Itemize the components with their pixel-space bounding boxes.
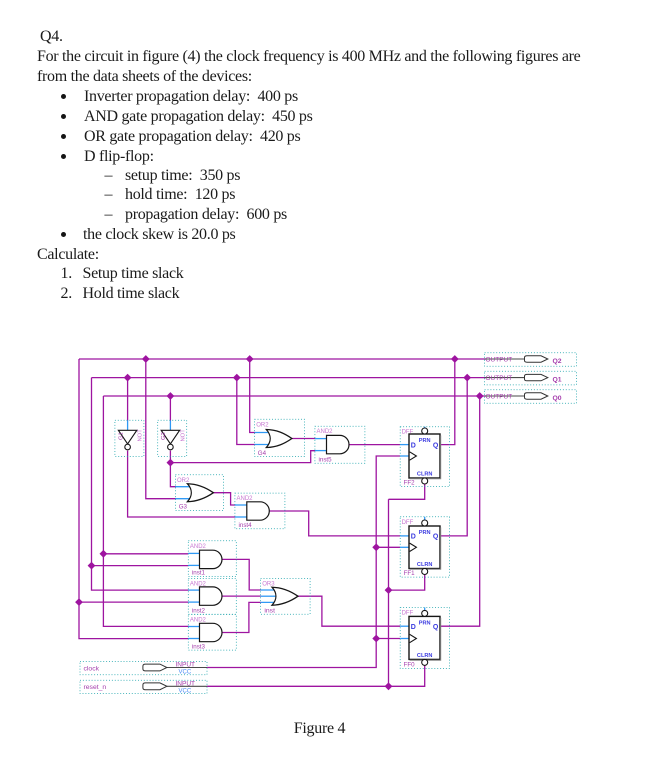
svg-text:DFF: DFF bbox=[402, 611, 414, 617]
junction Q0/FF0.Q bbox=[476, 392, 484, 400]
svg-text:DFF: DFF bbox=[402, 430, 414, 436]
svg-text:Q2: Q2 bbox=[553, 358, 562, 365]
svg-text:inst4: inst4 bbox=[239, 522, 253, 529]
svg-text:inst: inst bbox=[264, 607, 275, 614]
svg-text:PRN: PRN bbox=[419, 438, 431, 444]
wire Q0 net drop to NOT G2 input bbox=[169, 396, 171, 421]
wire Q1 net drop to NOT G1 input bbox=[127, 378, 129, 421]
wire Q2 net left vertical to inst3 lower input bbox=[79, 359, 189, 639]
junction G2 output bbox=[167, 459, 175, 467]
svg-text:NOT: NOT bbox=[138, 429, 144, 442]
output pin Q0 bbox=[485, 390, 577, 404]
wire Q1 net drop to G4 lower input bbox=[237, 378, 255, 445]
wire inst1 output to OR3 input 1 bbox=[221, 559, 260, 590]
wire reset_n tap to FF1 CLRN bbox=[389, 575, 425, 590]
svg-text:INPUT: INPUT bbox=[176, 662, 196, 669]
svg-text:G2: G2 bbox=[161, 432, 167, 440]
wire G2 output branch to inst5 lower input bbox=[170, 451, 315, 463]
svg-text:VCC: VCC bbox=[179, 689, 192, 695]
svg-text:FF1: FF1 bbox=[404, 570, 416, 577]
svg-text:inst1: inst1 bbox=[192, 570, 206, 577]
and-gate inst3 (AND2) bbox=[188, 614, 236, 650]
svg-text:AND2: AND2 bbox=[190, 544, 207, 550]
wire FF2 Q to Q2 bus bbox=[440, 359, 455, 445]
junction Q1/G4 bbox=[233, 374, 241, 382]
junction Q0/inst1 bbox=[100, 550, 108, 558]
wire OR3 inst output to FF0 D bbox=[298, 596, 400, 626]
svg-text:OR2: OR2 bbox=[177, 478, 190, 484]
wire Q0 net horizontal bus bbox=[103, 395, 486, 397]
wire Q2 net horizontal bus bbox=[79, 358, 486, 360]
wire clock tap to FF0 clock bbox=[376, 638, 400, 640]
wire clock tap to FF1 clock bbox=[376, 546, 400, 548]
wire Q0 net left vertical to inst3 upper input bbox=[103, 396, 188, 626]
wire FF0 Q to Q0 bus bbox=[440, 396, 480, 626]
svg-text:inst2: inst2 bbox=[192, 607, 206, 614]
wire Q2 net drop to G3 lower input bbox=[146, 359, 176, 499]
junction Q2/inst2 bbox=[75, 598, 83, 606]
wire inst5 output to FF2 D bbox=[349, 444, 401, 446]
and-gate inst2 (AND2) bbox=[188, 579, 236, 615]
svg-text:INPUT: INPUT bbox=[176, 681, 196, 688]
svg-text:AND2: AND2 bbox=[237, 496, 254, 502]
wire Q0 net tap to inst1 upper input bbox=[103, 553, 188, 555]
wire Q1 net horizontal bus bbox=[92, 377, 487, 379]
svg-text:FF0: FF0 bbox=[404, 661, 416, 668]
junction Q1/inst1 bbox=[88, 562, 96, 570]
svg-text:OUTPUT: OUTPUT bbox=[486, 375, 513, 382]
flip-flop FF0 (DFF) bbox=[400, 608, 449, 669]
input pin reset_n bbox=[80, 680, 207, 694]
svg-text:G3: G3 bbox=[179, 503, 188, 510]
svg-text:G1: G1 bbox=[118, 432, 124, 440]
svg-text:inst3: inst3 bbox=[192, 643, 206, 650]
input pin clock bbox=[80, 661, 207, 675]
junction Q2/FF2.Q bbox=[451, 355, 459, 363]
output pin Q1 bbox=[485, 371, 577, 385]
inverter G2 (NOT) bbox=[158, 420, 187, 456]
wire inst4 output to FF1 D bbox=[269, 511, 400, 536]
flip-flop FF1 (DFF) bbox=[400, 517, 449, 577]
svg-text:DFF: DFF bbox=[402, 520, 414, 526]
svg-text:AND2: AND2 bbox=[190, 582, 207, 588]
wire Q2 net tap to inst2 lower input bbox=[79, 601, 189, 603]
svg-text:OR3: OR3 bbox=[262, 582, 275, 588]
junction reset/FF0 bbox=[385, 682, 393, 690]
wire reset_n net from input pin to FF0 CLRN bbox=[207, 666, 425, 687]
and-gate inst5 (AND2) bbox=[315, 426, 365, 463]
svg-text:D: D bbox=[411, 442, 416, 449]
svg-text:Q: Q bbox=[433, 442, 439, 449]
wire Q1 net left vertical to inst2 upper input bbox=[92, 378, 189, 590]
inverter G1 (NOT) bbox=[115, 420, 144, 456]
junction Q1/G1 bbox=[124, 374, 132, 382]
svg-text:D: D bbox=[411, 624, 416, 631]
svg-text:VCC: VCC bbox=[179, 670, 192, 676]
wire inst3 output to OR3 input 3 bbox=[221, 602, 260, 632]
wire inst2 output to OR3 input 2 bbox=[221, 595, 260, 597]
svg-text:FF2: FF2 bbox=[404, 479, 416, 486]
svg-text:OUTPUT: OUTPUT bbox=[486, 356, 513, 363]
wire G3 output to inst4 upper input bbox=[213, 493, 235, 505]
svg-text:NOT: NOT bbox=[180, 429, 186, 442]
or-gate G3 (OR2) bbox=[175, 475, 223, 511]
junction Q0/G2 bbox=[167, 392, 175, 400]
wire G2 output to G3 upper input bbox=[170, 451, 175, 487]
junction clock/FF1 bbox=[372, 543, 380, 551]
wire Q1 net tap to inst1 lower input bbox=[92, 565, 189, 567]
junction Q2/G3 bbox=[142, 355, 150, 363]
junction Q2/G4 bbox=[246, 355, 254, 363]
output pin Q2 bbox=[485, 353, 577, 367]
wire G4 output to inst5 upper input bbox=[292, 438, 315, 440]
wire Q2 net drop to G4 upper input bbox=[250, 359, 256, 433]
junction Q1/FF1.Q bbox=[463, 374, 471, 382]
junction clock/FF0 bbox=[372, 635, 380, 643]
wire reset_n top branch to FF2 CLRN bbox=[389, 484, 425, 499]
svg-text:AND2: AND2 bbox=[190, 617, 207, 623]
svg-text:PRN: PRN bbox=[419, 620, 431, 626]
svg-text:OUTPUT: OUTPUT bbox=[486, 393, 513, 400]
svg-text:inst5: inst5 bbox=[319, 457, 333, 464]
svg-text:reset_n: reset_n bbox=[84, 684, 107, 691]
svg-text:CLRN: CLRN bbox=[417, 653, 433, 659]
svg-text:PRN: PRN bbox=[419, 530, 431, 536]
and-gate inst1 (AND2) bbox=[188, 541, 236, 577]
junction reset/FF1 bbox=[385, 586, 393, 594]
and-gate inst4 (AND2) bbox=[235, 493, 285, 529]
svg-text:Q1: Q1 bbox=[553, 377, 562, 384]
svg-text:AND2: AND2 bbox=[317, 429, 334, 435]
wire reset_n vertical riser bbox=[388, 499, 390, 686]
wire clock net from input pin to FF2 clock bbox=[207, 456, 400, 668]
flip-flop FF2 (DFF) bbox=[400, 427, 449, 487]
svg-text:OR2: OR2 bbox=[256, 422, 269, 428]
or-gate inst (OR3) bbox=[261, 578, 311, 614]
svg-text:CLRN: CLRN bbox=[417, 562, 433, 568]
svg-text:CLRN: CLRN bbox=[417, 471, 433, 477]
svg-text:Q: Q bbox=[433, 534, 439, 541]
wire G1 output to inst4 lower input bbox=[128, 451, 236, 517]
svg-text:G4: G4 bbox=[258, 450, 267, 457]
or-gate G4 (OR2) bbox=[255, 419, 305, 457]
wire FF1 Q to Q1 bus bbox=[440, 378, 467, 536]
svg-text:Q: Q bbox=[433, 624, 439, 631]
svg-text:D: D bbox=[411, 534, 416, 541]
svg-text:clock: clock bbox=[84, 665, 100, 672]
svg-text:Q0: Q0 bbox=[553, 395, 562, 402]
